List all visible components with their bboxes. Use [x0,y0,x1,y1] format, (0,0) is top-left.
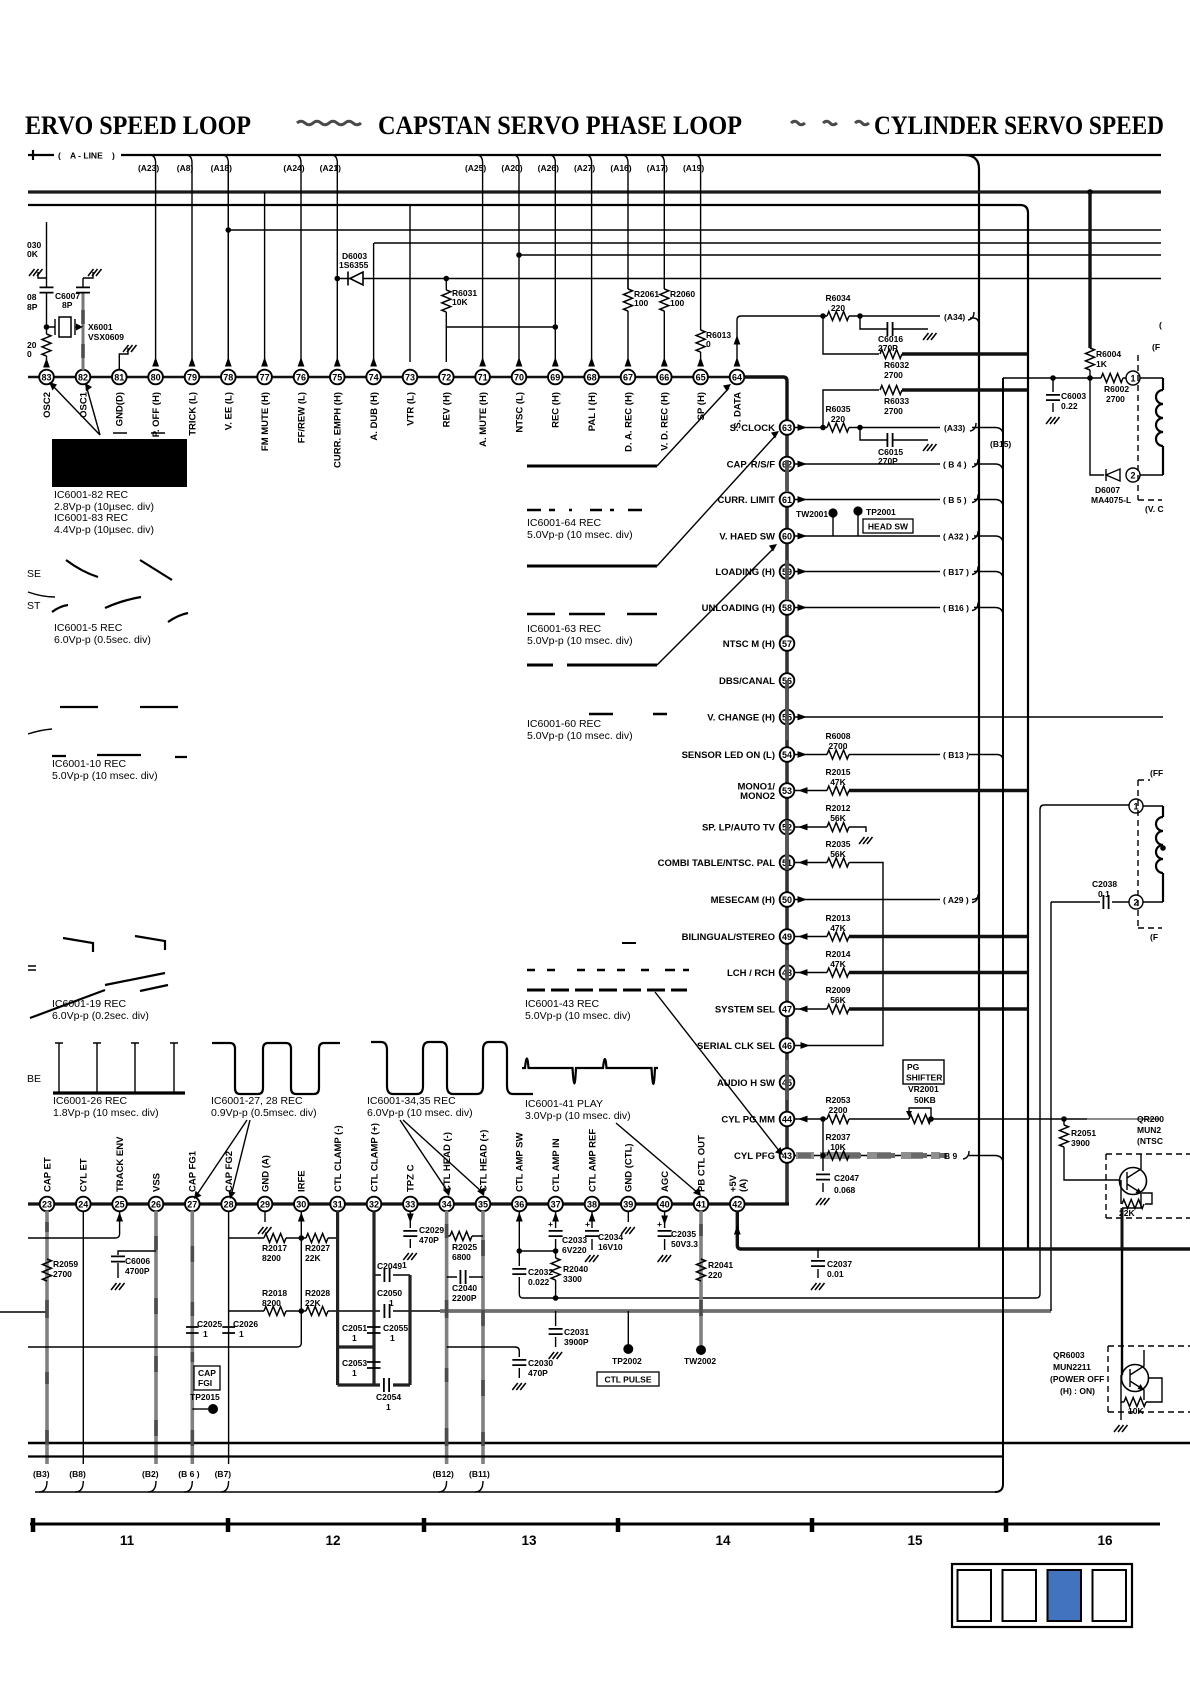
svg-text:R6004: R6004 [1096,349,1121,359]
wire collector up to rail [1121,1249,1123,1375]
svg-text:C2038: C2038 [1092,879,1117,889]
svg-text:76: 76 [296,373,306,383]
wire pin78 upper crosses [227,163,229,362]
pin 27 CAP FG1 [185,1150,200,1211]
svg-text:1: 1 [203,1329,208,1339]
wire emitter down to +5V rail [1122,1203,1141,1208]
svg-text:(A21): (A21) [320,163,341,173]
svg-text:100: 100 [670,298,684,308]
resistor 22K [1121,1180,1152,1204]
svg-text:C2037: C2037 [827,1259,852,1269]
pin 80 P. OFF (H) [148,370,163,438]
svg-text:(B11): (B11) [469,1469,490,1479]
trace square wave 3 [371,1042,533,1094]
svg-text:IC6001-27, 28 REC: IC6001-27, 28 REC [211,1095,303,1107]
scope photo black block OSC [52,439,187,487]
wire OSC1 down to pin 82 [82,327,85,370]
svg-text:CAP: CAP [198,1368,216,1378]
svg-text:(B2): (B2) [142,1469,159,1479]
trace dashes y970 [527,969,689,972]
pin 83 OSC2 [39,370,54,418]
ground pin29 [264,1211,266,1222]
pin 69 REC (H) [548,370,563,428]
svg-text:C6006: C6006 [125,1256,150,1266]
resistor R2018 8200 [264,1307,286,1316]
wire bus y243 [374,242,1161,244]
trace dashes y714 [589,713,667,716]
svg-text:NTSC M (H): NTSC M (H) [723,639,775,650]
svg-text:IC6001-83 REC: IC6001-83 REC [54,512,129,524]
pin 42 +5V (A) [728,1174,749,1211]
resistor R2013 47K row49 [795,936,827,938]
wire return y1456 [28,1455,1003,1457]
svg-text:IC6001-60 REC: IC6001-60 REC [527,718,602,730]
wire pin55 V.CHANGE long line [795,716,1163,718]
svg-text:(NTSC: (NTSC [1137,1136,1163,1146]
svg-text:470P: 470P [419,1235,439,1245]
svg-text:GND (CTL): GND (CTL) [624,1143,635,1192]
pin 53 MONO1/ MONO2 [738,782,795,803]
svg-text:TRICK (L): TRICK (L) [187,392,198,436]
svg-text:5.0Vp-p (10 msec. div): 5.0Vp-p (10 msec. div) [527,730,633,742]
IC6001 bottom edge [28,1202,789,1205]
pin 60 V. HAED SW [719,529,794,544]
capacitor C2031 3900P [555,1311,557,1347]
svg-text:DBS/CANAL: DBS/CANAL [719,676,775,687]
svg-text:(A17): (A17) [647,163,668,173]
pin 36 CTL AMP SW [512,1133,527,1212]
svg-text:(FF: (FF [1150,768,1163,778]
svg-text:MESECAM (H): MESECAM (H) [711,895,775,906]
svg-text:D6007: D6007 [1095,485,1120,495]
svg-text:V. HAED SW: V. HAED SW [719,532,775,543]
svg-text:3300: 3300 [563,1274,582,1284]
wire pin row to connector ( B16 ) [795,607,940,609]
resistor R2060 100 [663,279,665,363]
svg-text:74: 74 [369,373,379,383]
svg-text:47K: 47K [830,959,846,969]
svg-text:22K: 22K [305,1298,321,1308]
svg-text:IC6001-63 REC: IC6001-63 REC [527,623,602,635]
capacitor C6008 8P [46,222,48,327]
pin 68 PAL I (H) [584,370,599,432]
trace dash y943 [622,942,636,944]
svg-text:R2053: R2053 [825,1095,850,1105]
capacitor C2050 1 [384,1304,389,1318]
resistor R2027 22K [303,1237,338,1239]
svg-text:100: 100 [634,298,648,308]
wire thick vertical x1090 from y192 [1087,189,1093,195]
wire pin37 [555,1211,557,1298]
capacitor C2033 6V220 [549,1231,563,1236]
svg-text:64: 64 [732,373,742,383]
svg-text:TP2002: TP2002 [612,1356,642,1366]
wire (A27) from A-LINE to pin [586,155,592,362]
pin circle 2 motor [1126,468,1140,482]
svg-text:REC (H): REC (H) [551,392,562,428]
wire pin x=228.6 down to connector [228,1211,230,1464]
svg-text:30: 30 [296,1200,306,1210]
svg-text:( B16 ): ( B16 ) [943,603,969,613]
svg-text:11: 11 [120,1533,135,1548]
wire pin row to connector ( B17 ) [795,571,940,573]
svg-text:53: 53 [782,786,792,796]
svg-text:(POWER OFF: (POWER OFF [1050,1374,1104,1384]
svg-text:( B 4 ): ( B 4 ) [943,460,967,470]
ground QR6003 [1120,1402,1122,1420]
wire pin30 IRFE [28,1211,301,1347]
svg-text:81: 81 [114,373,124,383]
pin 70 NTSC (L) [512,370,527,433]
svg-text:CTL HEAD (-): CTL HEAD (-) [442,1132,453,1192]
svg-text:39: 39 [623,1200,633,1210]
svg-text:1.8Vp-p (10 msec. div): 1.8Vp-p (10 msec. div) [53,1107,159,1119]
svg-text:C2054: C2054 [376,1392,401,1402]
svg-text:( A32 ): ( A32 ) [943,532,969,542]
arrow into pin at x=482.6 [479,357,486,367]
wire pin25 to left edge [28,1211,120,1238]
svg-text:IC6001-5 REC: IC6001-5 REC [54,622,123,634]
test point TW2001 [832,516,834,536]
svg-text:( B17 ): ( B17 ) [943,567,969,577]
svg-text:26: 26 [151,1200,161,1210]
capacitor C6016 270P [857,313,863,319]
svg-text:6.0Vp-p (0.2sec. div): 6.0Vp-p (0.2sec. div) [52,1010,149,1022]
svg-text:5.0Vp-p (10 msec. div): 5.0Vp-p (10 msec. div) [527,635,633,647]
svg-text:V. CHANGE (H): V. CHANGE (H) [707,713,775,724]
svg-text:CAPSTAN SERVO PHASE LOOP: CAPSTAN SERVO PHASE LOOP [378,111,742,140]
wire (A24) from A-LINE to pin [295,155,301,362]
arrows to pins 83 82 [51,384,100,435]
wire pin64 S.DATA up corner [737,316,823,362]
svg-text:0.068: 0.068 [834,1185,856,1195]
svg-text:(A20): (A20) [501,163,522,173]
svg-text:BE: BE [27,1073,41,1085]
arrow into pin at x=591.6 [588,357,595,367]
svg-text:6.0Vp-p (10 msec. div): 6.0Vp-p (10 msec. div) [367,1107,473,1119]
svg-text:R2037: R2037 [825,1132,850,1142]
svg-text:QR200: QR200 [1137,1114,1164,1124]
pin 41 PB CTL OUT [694,1135,709,1211]
svg-text:0.9Vp-p (0.5msec. div): 0.9Vp-p (0.5msec. div) [211,1107,317,1119]
coil winding top [1156,378,1163,475]
svg-text:R2059: R2059 [53,1259,78,1269]
resistor R2035 56K row51 [795,862,827,864]
svg-text:SP (H): SP (H) [696,392,707,420]
svg-text:SERIAL CLK SEL: SERIAL CLK SEL [697,1041,775,1052]
svg-text:(B3): (B3) [33,1469,50,1479]
svg-text:12: 12 [325,1533,340,1548]
pin 76 FF/REW (L) [294,370,309,443]
svg-text:4700P: 4700P [125,1266,150,1276]
svg-text:29: 29 [260,1200,270,1210]
svg-text:24: 24 [78,1200,88,1210]
wire pin43 CYL PFG gray [795,1155,940,1157]
svg-text:SYSTEM SEL: SYSTEM SEL [715,1005,775,1016]
svg-text:(A33): (A33) [944,423,965,433]
svg-text:3900P: 3900P [564,1337,589,1347]
trace long dashes y990 + diagonal to pin43 [527,989,687,992]
svg-text:(A23): (A23) [138,163,159,173]
svg-text:SE: SE [27,568,41,580]
wire A-LINE corner down [966,155,979,1249]
capacitor C6007 8P [82,293,85,327]
svg-text:75: 75 [332,373,342,383]
dashed box top motor [1137,355,1139,500]
wire vertical x1003 down [995,378,1003,1492]
svg-text:CAP ET: CAP ET [42,1157,53,1192]
wire (A26) from A-LINE to pin [549,155,555,362]
svg-text:C2026: C2026 [233,1319,258,1329]
svg-text:C2040: C2040 [452,1283,477,1293]
svg-text:2700: 2700 [829,741,848,751]
svg-text:A - LINE: A - LINE [70,151,103,161]
wire pin x=156 down to connector [154,1211,158,1464]
svg-text:TP2015: TP2015 [190,1392,220,1402]
svg-text:C2034: C2034 [598,1232,623,1242]
arrow into pin at x=264.6 [261,357,268,367]
wire bus y230 [228,229,1161,231]
svg-text:470P: 470P [528,1368,548,1378]
svg-text:(F: (F [1152,342,1160,352]
pin 55 V. CHANGE (H) [707,710,794,725]
trace y665 + diagonal to pin60 [527,664,657,667]
svg-text:71: 71 [478,373,488,383]
svg-text:GND(D): GND(D) [115,392,126,426]
svg-text:(A24): (A24) [283,163,304,173]
svg-text:6V220: 6V220 [562,1245,587,1255]
svg-text:2700: 2700 [1106,394,1125,404]
svg-text:0.01: 0.01 [827,1269,844,1279]
svg-text:1S6355: 1S6355 [339,260,369,270]
svg-text:0.22: 0.22 [1061,401,1078,411]
wire hook bus y1492 [35,1491,996,1493]
svg-text:41: 41 [696,1200,706,1210]
arrow into pin at x=664.3 [661,357,668,367]
svg-text:13: 13 [521,1533,537,1548]
resistor R2053 2200 row44 [795,1118,827,1120]
svg-text:FF/REW (L): FF/REW (L) [296,392,307,443]
wire pin36 down [519,810,1040,1298]
resistor R2037 10K [827,1151,849,1160]
svg-text:2700: 2700 [884,406,903,416]
svg-text:1: 1 [390,1333,395,1343]
svg-text:220: 220 [708,1270,722,1280]
svg-text:0: 0 [706,339,711,349]
svg-text:(A8): (A8) [177,163,194,173]
svg-text:CTL CLAMP (+): CTL CLAMP (+) [369,1123,380,1192]
svg-text:23: 23 [42,1200,52,1210]
svg-text:COMBI TABLE/NTSC. PAL: COMBI TABLE/NTSC. PAL [658,858,776,869]
svg-text:(B12): (B12) [433,1469,454,1479]
svg-text:R2018: R2018 [262,1288,287,1298]
pin 73 VTR (L) [403,370,418,426]
svg-text:CAP. R/S/F: CAP. R/S/F [727,460,776,471]
svg-text:1: 1 [239,1329,244,1339]
svg-text:220: 220 [831,414,845,424]
capacitor C2054 1 [384,1378,389,1392]
svg-text:60: 60 [782,532,792,542]
svg-text:CAP FG1: CAP FG1 [188,1150,199,1192]
arrow into pin at x=628 [625,357,632,367]
capacitor C2035 50V3.3 [664,1211,666,1250]
potentiometer VR2001 50KB [849,1118,1087,1120]
arrow into pin at x=228.3 [225,357,232,367]
svg-text:2200P: 2200P [452,1293,477,1303]
svg-text:4.4Vp-p (10µsec. div): 4.4Vp-p (10µsec. div) [54,524,154,536]
svg-text:X6001: X6001 [88,322,113,332]
svg-text:2: 2 [1130,471,1135,481]
svg-text:TW2002: TW2002 [684,1356,716,1366]
svg-text:TW2001: TW2001 [796,509,828,519]
svg-text:25: 25 [115,1200,125,1210]
svg-text:FGI: FGI [198,1378,212,1388]
svg-text:HEAD SW: HEAD SW [868,522,909,532]
svg-text:R2041: R2041 [708,1260,733,1270]
trace dashes y614 [527,613,657,616]
pin 34 CTL HEAD (-) [439,1132,454,1211]
wire (A18) from A-LINE to pin [222,155,228,362]
svg-text:MUN2: MUN2 [1137,1125,1161,1135]
pin 33 TPZ C [403,1164,418,1211]
trace y566 + diagonal to pin63 [527,565,657,568]
svg-text:47K: 47K [830,923,846,933]
svg-text:R2040: R2040 [563,1264,588,1274]
svg-text:46: 46 [782,1041,792,1051]
svg-text:14: 14 [715,1533,731,1548]
wire (A25) from A-LINE to pin [477,155,483,362]
svg-text:5.0Vp-p (10 msec. div): 5.0Vp-p (10 msec. div) [52,770,158,782]
resistor R2059 2700 [43,1259,52,1281]
wire (A19) from A-LINE to pin [695,155,701,330]
arrow into pin at x=301 [298,357,305,367]
pin 51 COMBI TABLE/NTSC. PAL [658,855,795,870]
svg-text:CTL PULSE: CTL PULSE [604,1375,651,1385]
pin 28 CAP FG2 [221,1151,236,1211]
pin 66 V. D. REC (H) [657,370,672,451]
svg-text:10K: 10K [452,297,468,307]
svg-text:3.0Vp-p (10 msec. div): 3.0Vp-p (10 msec. div) [525,1110,631,1122]
svg-text:1: 1 [352,1368,357,1378]
svg-text:(B 6 ): (B 6 ) [178,1469,199,1479]
svg-text:FM MUTE (H): FM MUTE (H) [260,392,271,451]
svg-text:16V10: 16V10 [598,1242,623,1252]
resistor R6032 2700 [823,316,879,354]
svg-text:2700: 2700 [53,1269,72,1279]
svg-text:CTL AMP SW: CTL AMP SW [515,1133,526,1192]
HEAD SW label box [863,519,913,533]
wire pin x=446.6 down to connector [445,1211,449,1464]
svg-text:16: 16 [1097,1533,1113,1548]
svg-text:R2013: R2013 [825,913,850,923]
svg-text:IC6001-64 REC: IC6001-64 REC [527,517,602,529]
svg-text:(V. C: (V. C [1145,504,1164,514]
arrow into pin at x=555.3 [552,357,559,367]
svg-text:IC6001-41 PLAY: IC6001-41 PLAY [525,1098,603,1110]
svg-text:2700: 2700 [884,370,903,380]
svg-text:VSS: VSS [151,1173,162,1192]
svg-text:IC6001-10 REC: IC6001-10 REC [52,758,127,770]
trace dashes y707 [60,706,178,708]
pin 77 FM MUTE (H) [257,370,272,451]
pin 72 REV (H) [439,370,454,428]
pin 74 A. DUB (H) [366,370,381,441]
svg-text:D. A. REC (H): D. A. REC (H) [623,392,634,452]
pin 30 IRFE [294,1170,309,1211]
svg-text:B 9: B 9 [944,1151,958,1161]
node y255 x519 [516,252,522,258]
arrow into pin at x=519 [516,357,523,367]
svg-text:73: 73 [405,373,415,383]
transistor QR6003 [1108,1346,1190,1412]
svg-text:SHIFTER: SHIFTER [906,1073,942,1083]
svg-text:66: 66 [659,373,669,383]
svg-text:C2053: C2053 [342,1358,367,1368]
resistor R2009 56K row47 [795,1008,827,1010]
svg-text:R2009: R2009 [825,985,850,995]
svg-text:83: 83 [41,373,51,383]
pin 47 SYSTEM SEL [715,1002,794,1017]
svg-text:22K: 22K [305,1253,321,1263]
svg-text:(A25): (A25) [465,163,486,173]
svg-text:40: 40 [660,1200,670,1210]
resistor R6033 2700 [823,390,879,428]
resistor R2015 47K row53 [795,790,827,792]
pin 50 MESECAM (H) [711,892,795,907]
pin 61 CURR. LIMIT [717,492,794,507]
svg-text:MA4075-L: MA4075-L [1091,495,1131,505]
svg-text:67: 67 [623,373,633,383]
pin 52 SP. LP/AUTO TV [702,820,794,835]
cap box outline [338,1211,410,1385]
resistor R6008 2700 row54 [795,754,940,756]
svg-text:R6002: R6002 [1104,384,1129,394]
resistor R2040 3300 [551,1258,560,1280]
svg-text:15: 15 [907,1533,923,1548]
resistor R6004 1K [1086,348,1095,370]
resistor R6034 220 [820,313,826,319]
ground pin39 [627,1211,629,1222]
capacitor C6003 0.22 [1050,375,1056,381]
arrow into pin at x=700.6 [697,357,704,367]
svg-text:36: 36 [514,1200,524,1210]
svg-text:0: 0 [27,349,32,359]
svg-text:0.1: 0.1 [1098,889,1110,899]
svg-text:(: ( [58,151,61,161]
trace dashes y755 [52,755,187,757]
capacitor C6015 270P [857,425,863,431]
resistor R2017 8200 [229,1237,299,1239]
svg-text:C2029: C2029 [419,1225,444,1235]
resistor 10K QR6003 [1121,1375,1162,1402]
wire pin41 PB CTL OUT down [699,1211,703,1345]
svg-text:28: 28 [224,1200,234,1210]
pin 39 GND (CTL) [621,1143,636,1211]
svg-text:C2055: C2055 [383,1323,408,1333]
pin 40 AGC [657,1171,672,1212]
svg-text:IC6001-34,35 REC: IC6001-34,35 REC [367,1095,456,1107]
resistor R2028 22K [286,1310,306,1312]
svg-text:32: 32 [369,1200,379,1210]
wire pin row to connector ( B 4 ) [795,463,940,465]
pin 62 CAP. R/S/F [727,457,795,472]
capacitor C2029 470P [409,1211,411,1248]
svg-text:37: 37 [551,1200,561,1210]
svg-text:47: 47 [782,1005,792,1015]
svg-text:R2025: R2025 [452,1242,477,1252]
resistor R2014 47K row48 [795,972,827,974]
trace sawtooth y940 [63,936,165,952]
